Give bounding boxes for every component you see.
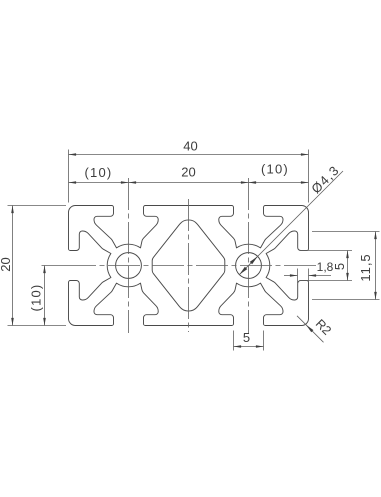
svg-text:40: 40 — [183, 139, 197, 154]
svg-text:20: 20 — [181, 165, 195, 180]
svg-text:5: 5 — [243, 330, 250, 345]
svg-text:(10): (10) — [85, 165, 113, 180]
svg-text:20: 20 — [0, 257, 13, 271]
svg-text:1,8: 1,8 — [317, 260, 334, 274]
svg-text:11,5: 11,5 — [358, 253, 373, 281]
svg-text:(10): (10) — [261, 162, 289, 177]
svg-text:(10): (10) — [29, 284, 44, 312]
svg-text:5: 5 — [332, 263, 347, 270]
